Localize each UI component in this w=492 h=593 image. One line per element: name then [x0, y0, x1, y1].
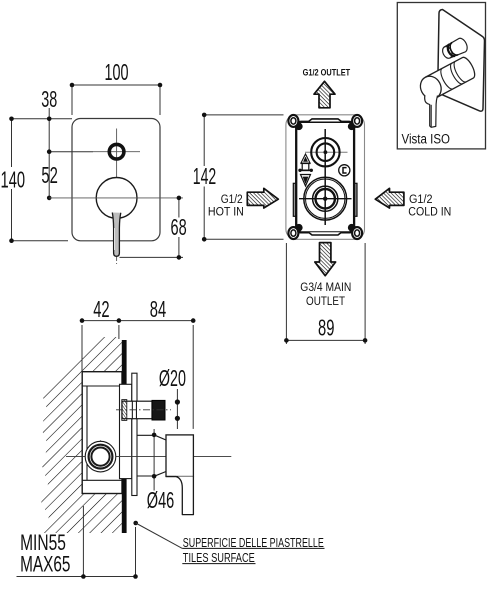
- mixer cartridge circles: [304, 177, 347, 220]
- mixer cartridge crosshair: [299, 198, 352, 200]
- iso handle: [417, 55, 478, 102]
- svg-text:SUPERFICIE DELLE PIASTRELLE: SUPERFICIE DELLE PIASTRELLE: [183, 535, 324, 550]
- lever front: [112, 213, 121, 257]
- svg-text:Ø46: Ø46: [147, 487, 175, 513]
- bottom tab: [309, 232, 342, 235]
- tiles surface leader: [133, 521, 138, 526]
- iso plate: [438, 10, 485, 112]
- svg-text:G1/2 OUTLET: G1/2 OUTLET: [303, 67, 351, 78]
- svg-text:89: 89: [318, 314, 334, 340]
- dim 38/52 vertical line: [48, 108, 50, 198]
- dim 140 left: [11, 119, 13, 241]
- front view trim plate: [72, 119, 160, 241]
- body centerline vertical: [324, 129, 326, 225]
- svg-text:100: 100: [105, 59, 129, 85]
- top tab: [309, 119, 342, 122]
- arrow G3/4 main outlet (down): [315, 243, 336, 276]
- dim 42 / 84: [81, 325, 83, 371]
- svg-text:140: 140: [1, 167, 26, 193]
- svg-text:COLD IN: COLD IN: [408, 207, 451, 219]
- handle neck taper: [154, 435, 166, 440]
- stem centerline dashed: [116, 409, 171, 411]
- dim MIN55/MAX65: [82, 506, 84, 577]
- upper cartridge crosshair: [305, 151, 348, 153]
- handle circle front: [96, 178, 137, 219]
- svg-text:G1/2: G1/2: [221, 194, 243, 206]
- tile strip bottom: [122, 479, 127, 533]
- dim 89: [285, 243, 287, 344]
- rough-in body outer: [286, 115, 365, 240]
- valve body side: [82, 372, 122, 494]
- outlet stem: [122, 401, 152, 419]
- arrow G1/2 outlet (up): [314, 81, 335, 108]
- corner screw boss BR: [352, 228, 358, 234]
- wall hatch: [41, 337, 122, 533]
- stem cap: [152, 400, 165, 420]
- trim plate side: [132, 373, 137, 495]
- diverter cartridge circles: [311, 138, 339, 166]
- arrow G1/2 hot in (right-pointing): [247, 188, 278, 208]
- svg-text:OUTLET: OUTLET: [306, 296, 345, 308]
- plate edges crossing stem: [131, 401, 133, 420]
- corner screw boss TL: [293, 121, 299, 127]
- dim 68 right + centerline big circle: [49, 197, 183, 199]
- handle cylinder side: [166, 435, 193, 477]
- svg-text:Ø20: Ø20: [159, 365, 186, 391]
- mixer cap circles side: [66, 456, 231, 458]
- diverter knob front: [109, 144, 124, 159]
- flange sleeve: [120, 384, 132, 478]
- corner screw boss TR: [352, 121, 358, 127]
- vista iso box: [397, 3, 485, 149]
- svg-text:142: 142: [193, 163, 216, 189]
- handle lever side: [166, 477, 193, 515]
- centerline vertical front view: [116, 129, 118, 219]
- svg-text:68: 68: [171, 214, 187, 240]
- dim 142: [203, 115, 205, 239]
- svg-text:HOT IN: HOT IN: [208, 207, 244, 219]
- svg-text:G1/2: G1/2: [409, 194, 433, 206]
- iso knob: [440, 37, 469, 61]
- C badge: [339, 165, 350, 176]
- corner screw boss BL: [293, 228, 299, 234]
- rough-in body inner box: [296, 122, 354, 233]
- svg-text:52: 52: [41, 162, 58, 188]
- right clip: [354, 183, 357, 216]
- svg-text:Vista ISO: Vista ISO: [402, 132, 451, 147]
- svg-text:84: 84: [150, 296, 167, 322]
- arrow G1/2 cold in (left-pointing): [375, 188, 404, 208]
- dim O46: [153, 429, 155, 491]
- svg-text:G3/4 MAIN: G3/4 MAIN: [300, 282, 351, 294]
- centerline below lever dashed: [116, 257, 118, 264]
- centerline small circle horizontal: [93, 151, 140, 153]
- dim 100 top: [72, 84, 160, 86]
- tile strip top: [122, 340, 127, 384]
- svg-text:MAX65: MAX65: [20, 552, 70, 577]
- svg-text:38: 38: [41, 86, 57, 112]
- temp adjuster symbol: [301, 154, 310, 163]
- dim O20: [176, 389, 178, 429]
- left clip: [293, 183, 296, 216]
- iso lever: [425, 92, 438, 128]
- svg-text:42: 42: [93, 296, 109, 322]
- svg-text:TILES SURFACE: TILES SURFACE: [183, 550, 255, 565]
